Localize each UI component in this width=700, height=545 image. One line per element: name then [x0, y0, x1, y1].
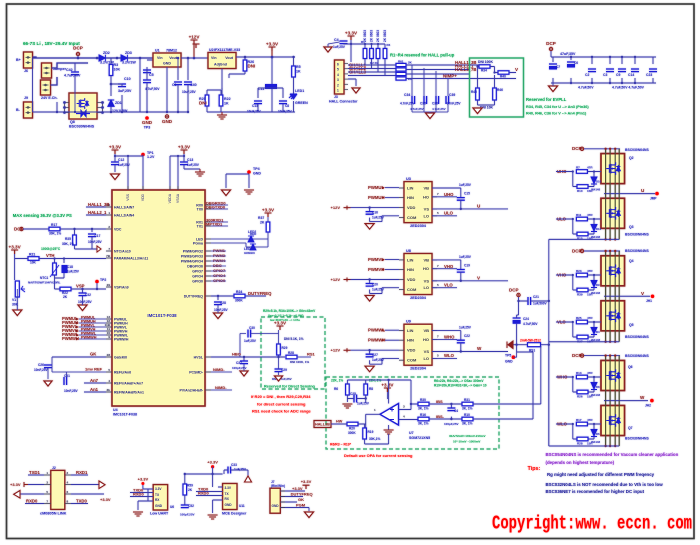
wire shunt	[511, 345, 549, 352]
ground opamp left	[342, 404, 352, 408]
wire jumper net	[52, 63, 89, 68]
ground mce	[208, 515, 218, 519]
resistor R29	[277, 344, 281, 355]
svg-text:JH1: JH1	[646, 299, 652, 303]
resistor R27 15R	[577, 335, 588, 339]
svg-text:R5: R5	[296, 65, 301, 69]
svg-text:VSP/An9: VSP/An9	[114, 285, 129, 289]
wire ibs to shunt	[499, 346, 541, 419]
connector J10	[24, 102, 33, 118]
regulator U2 IFX1117ME	[208, 53, 236, 69]
testpoint TP5	[512, 355, 516, 359]
capacitor C14	[631, 69, 639, 72]
svg-text:LO: LO	[423, 213, 429, 218]
resistor R45	[476, 88, 480, 100]
node rail junctions	[77, 57, 80, 60]
resistor R30	[418, 402, 429, 406]
svg-text:R45: R45	[471, 90, 477, 94]
capacitor C26	[44, 365, 52, 368]
svg-text:C35: C35	[420, 102, 426, 106]
svg-text:AdjGnd: AdjGnd	[214, 63, 227, 67]
svg-text:R8: R8	[369, 387, 373, 391]
wire led	[293, 57, 295, 112]
capacitor C2	[588, 69, 596, 72]
svg-text:4.7uF,50V 4.7uF,50V: 4.7uF,50V 4.7uF,50V	[612, 86, 645, 90]
resistor R46	[493, 88, 497, 100]
wire c24 down	[517, 315, 519, 345]
capacitor C5	[143, 80, 151, 83]
wire driver vdd	[351, 280, 400, 294]
green dashed box direct sensing	[261, 317, 325, 389]
svg-text:DUTYFREQ: DUTYFREQ	[291, 492, 313, 497]
wire gate	[573, 219, 601, 234]
wire mce top	[185, 467, 248, 500]
op-amp U7	[380, 404, 399, 426]
wire R25 R22	[207, 88, 295, 112]
svg-text:6: 6	[337, 63, 339, 67]
svg-text:2: 2	[337, 83, 339, 87]
wire link 3v3	[28, 484, 99, 486]
svg-text:C12: C12	[118, 158, 124, 162]
capacitor C20	[366, 284, 374, 287]
ground c37	[240, 371, 248, 376]
svg-text:C5: C5	[149, 73, 154, 77]
wire driver vs	[432, 260, 508, 281]
resistor R17 47R	[576, 422, 587, 426]
svg-text:2ED2304: 2ED2304	[410, 224, 427, 228]
wire driver vdd	[351, 280, 400, 294]
wire gate	[573, 377, 601, 392]
testpoint TP1	[141, 153, 145, 157]
capacitor C13a	[254, 101, 262, 104]
wire c31	[48, 372, 67, 379]
capacitor C27	[366, 354, 374, 357]
wire r19 down	[365, 434, 389, 444]
svg-text:R4: R4	[387, 43, 391, 47]
resistor R40	[498, 71, 509, 74]
resistor R28 15R	[577, 437, 588, 441]
power DCP link	[517, 293, 520, 296]
svg-text:2ED2304: 2ED2304	[410, 367, 427, 371]
wire mcu pwr1	[115, 154, 143, 190]
svg-text:RED: RED	[250, 232, 257, 236]
capacitor C15	[457, 198, 465, 201]
svg-text:(depends on highest temprature: (depends on highest temprature)	[546, 460, 615, 465]
arrow mce right	[245, 476, 252, 482]
capacitor C13b2	[180, 162, 188, 165]
wire 12V to U2	[194, 57, 208, 59]
svg-text:+12V: +12V	[331, 277, 341, 282]
svg-text:300K: 300K	[348, 431, 356, 435]
diode D6	[591, 430, 597, 437]
ground c32	[78, 305, 87, 311]
transistor Q5	[601, 301, 625, 331]
resistor R19	[363, 428, 367, 439]
svg-text:NIMP+: NIMP+	[443, 74, 457, 79]
svg-text:2K: 2K	[188, 488, 193, 492]
wire driver vs	[432, 331, 508, 352]
svg-text:GREEN: GREEN	[295, 101, 308, 105]
ground hall caps	[426, 113, 435, 119]
testpoint TP1	[141, 153, 145, 157]
svg-text:24V E.Ch.: 24V E.Ch.	[41, 96, 58, 100]
svg-text:C6: C6	[574, 61, 578, 65]
ground U2	[217, 115, 227, 119]
svg-text:1uF,25V: 1uF,25V	[357, 402, 370, 406]
svg-text:TX0: TX0	[197, 207, 203, 211]
svg-text:D8: D8	[596, 385, 600, 389]
svg-text:C10: C10	[124, 77, 131, 81]
svg-text:IMC101T-F038: IMC101T-F038	[113, 413, 137, 417]
wire j7	[280, 491, 309, 511]
wire ntc	[15, 254, 106, 280]
ground mcu2	[195, 172, 205, 176]
svg-text:C9: C9	[616, 73, 620, 77]
svg-text:R61: R61	[398, 60, 404, 64]
power +12V driver	[344, 206, 351, 210]
capacitor C25	[354, 395, 357, 403]
transistor Q8	[69, 93, 97, 119]
resistor R10	[462, 417, 473, 421]
svg-text:VS: VS	[424, 206, 430, 211]
wire dclink	[519, 239, 549, 344]
svg-text:Q3: Q3	[629, 225, 634, 229]
svg-text:28: 28	[107, 353, 111, 357]
capacitor C4b	[447, 408, 455, 411]
svg-text:DCP: DCP	[572, 248, 582, 253]
svg-text:GND: GND	[155, 504, 163, 508]
svg-text:R17: R17	[51, 223, 57, 227]
resistor R22b	[60, 287, 71, 291]
svg-text:1uF,500V: 1uF,500V	[533, 302, 548, 306]
wire Q8 pins	[65, 103, 103, 113]
svg-text:C3: C3	[603, 73, 607, 77]
ground c29	[275, 376, 283, 381]
svg-text:R29=5.1k, R34=100K--> Gile=43m: R29=5.1k, R34=100K--> Gile=43mV	[263, 309, 316, 313]
svg-text:4.7nF,25V: 4.7nF,25V	[432, 107, 446, 111]
ground driver	[365, 366, 374, 372]
capacitor C24	[513, 318, 521, 321]
resistor R28	[286, 355, 297, 359]
capacitor C9	[618, 69, 626, 72]
wire bus top	[551, 51, 656, 83]
svg-text:NIMD-: NIMD-	[215, 385, 227, 390]
svg-text:3uF,25V: 3uF,25V	[118, 89, 132, 93]
resistor R28 15R	[577, 437, 588, 441]
svg-text:LO: LO	[423, 356, 429, 361]
ground bus	[549, 86, 558, 92]
svg-text:VS: VS	[424, 278, 430, 283]
svg-text:Vin: Vin	[211, 56, 217, 60]
wire opamp inputs right	[399, 404, 419, 420]
connector J9	[42, 63, 52, 78]
capacitor C33 mce	[228, 467, 231, 474]
IC U4 IMC101T-F038	[112, 190, 205, 406]
power +3.3V hall	[348, 36, 355, 40]
svg-text:IN4148: IN4148	[591, 291, 600, 295]
svg-text:VDD: VDD	[407, 348, 416, 353]
svg-text:C15: C15	[464, 192, 470, 196]
diode D9	[591, 281, 597, 288]
ground c26	[44, 381, 52, 386]
wire gate	[573, 275, 601, 290]
svg-text:JMP: JMP	[650, 197, 657, 201]
wire W phase	[604, 400, 648, 402]
svg-text:47R: 47R	[587, 418, 593, 422]
svg-text:1.2V: 1.2V	[147, 155, 155, 159]
svg-text:3K, 1%: 3K, 1%	[418, 407, 429, 411]
svg-text:4: 4	[337, 73, 339, 77]
resistor R64	[396, 77, 406, 80]
svg-text:1uF,25V: 1uF,25V	[244, 339, 257, 343]
connector J3 hall	[335, 60, 345, 94]
wire driver vdd	[351, 208, 400, 222]
transistor Q2	[601, 154, 625, 184]
ground U2	[217, 115, 227, 119]
wire U phase	[604, 193, 655, 195]
svg-text:10*-10mV ~1000mV: 10*-10mV ~1000mV	[453, 440, 480, 444]
svg-text:R6=22k, R6=22k,--> OSa= 300mV: R6=22k, R6=22k,--> OSa= 300mV	[434, 379, 484, 383]
resistor R7 47R	[576, 170, 587, 174]
ground tp4b	[244, 190, 254, 194]
ground reg	[165, 115, 168, 118]
resistor R27 15R	[577, 335, 588, 339]
LED LED1 green	[289, 94, 297, 99]
power +3.3V mce	[211, 465, 214, 468]
wire boot	[432, 188, 461, 209]
svg-text:R20: R20	[349, 427, 355, 431]
svg-text:VDD: VDD	[141, 193, 145, 201]
svg-text:Copyright:www. eccn. com: Copyright:www. eccn. com	[492, 513, 692, 535]
svg-text:Reserved for EVPLL: Reserved for EVPLL	[526, 97, 567, 102]
wire rs1	[331, 424, 365, 428]
svg-text:VDC: VDC	[114, 227, 122, 231]
diode D9	[591, 281, 597, 288]
wire ntc bottom	[55, 273, 65, 289]
svg-text:RXD1: RXD1	[76, 470, 88, 475]
wire c29	[278, 357, 280, 375]
wire to shunt	[473, 404, 499, 419]
capacitor C20	[366, 284, 374, 287]
capacitor C7 electrolytic	[549, 64, 557, 67]
testpoint TP2	[95, 280, 99, 284]
svg-text:VLO: VLO	[444, 283, 453, 288]
ground C4	[324, 47, 332, 52]
svg-text:W: W	[640, 395, 645, 400]
wire R25 R22	[207, 88, 295, 112]
svg-text:C32: C32	[85, 293, 91, 297]
wire J6 to rail	[33, 57, 37, 58]
wire rs1	[331, 424, 365, 428]
resistor R25 47R	[576, 320, 587, 324]
svg-text:Q6: Q6	[628, 365, 633, 369]
resistor R59	[183, 484, 187, 495]
wire vdc	[23, 229, 106, 235]
svg-text:U11: U11	[239, 504, 245, 508]
svg-text:R21: R21	[29, 253, 35, 257]
wire boot	[432, 331, 461, 352]
capacitor C22	[457, 340, 465, 343]
svg-text:NART05WF104FA20RL: NART05WF104FA20RL	[28, 281, 61, 285]
capacitor C5	[143, 80, 151, 83]
IC U11 mce designer	[223, 484, 237, 510]
svg-text:2K 0603: 2K 0603	[376, 30, 380, 42]
wire ntc	[15, 254, 106, 280]
svg-text:GND: GND	[163, 62, 171, 66]
svg-text:R3: R3	[114, 63, 119, 67]
svg-text:HIN: HIN	[407, 195, 414, 200]
ground uart	[133, 512, 143, 516]
svg-text:ZD3: ZD3	[125, 51, 132, 55]
power +3.3V ntc	[11, 250, 18, 254]
svg-text:Q5: Q5	[629, 323, 634, 327]
svg-text:R7: R7	[576, 166, 580, 170]
svg-text:DCP: DCP	[14, 227, 24, 232]
svg-text:+3.3V: +3.3V	[381, 383, 394, 388]
resistor R23 47R	[576, 273, 587, 277]
svg-text:3.3V: 3.3V	[225, 486, 232, 490]
svg-text:C22: C22	[464, 334, 470, 338]
resistor R39 15R	[577, 288, 588, 292]
capacitor C34	[412, 96, 415, 104]
svg-text:RXD0: RXD0	[198, 491, 209, 496]
svg-text:HO: HO	[423, 337, 429, 342]
ground opamp left	[342, 404, 352, 408]
resistor R10	[462, 417, 473, 421]
svg-text:10uF,25V: 10uF,25V	[247, 110, 262, 114]
svg-text:Vout: Vout	[225, 56, 234, 60]
capacitor C8	[143, 70, 151, 73]
power +3.3V j7	[303, 485, 310, 489]
svg-text:RS1 need check for ADC range: RS1 need check for ADC range	[252, 409, 312, 414]
capacitor C13b2	[180, 162, 188, 165]
capacitor C36	[436, 96, 439, 104]
green box EVPLL	[470, 58, 524, 117]
resistor R20	[347, 422, 358, 426]
connector J6	[24, 52, 33, 68]
svg-text:C19: C19	[464, 264, 470, 268]
svg-text:B+: B+	[16, 58, 21, 62]
connector J3 hall	[335, 60, 345, 94]
svg-text:V1: V1	[12, 298, 16, 302]
wire tp4	[226, 174, 249, 188]
svg-text:DNI 100K, 1%: DNI 100K, 1%	[290, 360, 310, 364]
svg-text:C4: C4	[454, 409, 458, 413]
node rail junctions	[77, 57, 80, 60]
power DCP q6	[580, 354, 583, 357]
wire driver vs	[432, 260, 508, 281]
svg-text:C20: C20	[372, 283, 378, 287]
svg-text:C16: C16	[372, 211, 378, 215]
power +3.3V opamp	[384, 388, 391, 392]
driver IC U9	[404, 324, 432, 365]
svg-text:+3.3V: +3.3V	[109, 145, 122, 150]
wire gate	[573, 377, 601, 392]
wire to shunt	[473, 404, 499, 419]
net label RS1 box	[314, 421, 331, 428]
capacitor C35	[424, 96, 427, 104]
resistor R26	[243, 60, 247, 71]
wire evpll	[470, 65, 516, 105]
svg-text:for direct current sensing: for direct current sensing	[257, 402, 306, 407]
resistor R62	[396, 68, 406, 71]
diode ZD3	[121, 55, 127, 61]
svg-text:BSC030N04NS: BSC030N04NS	[625, 148, 649, 152]
svg-text:3: 3	[337, 78, 339, 82]
wire bottom rail left	[32, 58, 34, 112]
svg-text:C34: C34	[404, 93, 410, 97]
svg-text:47R: 47R	[587, 213, 593, 217]
resistor R2	[370, 49, 374, 59]
wire direct sense	[240, 330, 279, 357]
wire opamp top	[347, 380, 411, 404]
svg-text:10nF,25V: 10nF,25V	[78, 300, 93, 304]
resistor R1	[363, 49, 367, 59]
svg-text:DUTYFREQ: DUTYFREQ	[248, 291, 272, 296]
driver IC U3	[404, 182, 432, 223]
ground GND TP3	[145, 116, 149, 120]
wire reg input	[140, 58, 153, 112]
svg-text:BSC030N04NS: BSC030N04NS	[625, 233, 649, 237]
svg-text:C28: C28	[220, 301, 226, 305]
svg-text:R59: R59	[187, 484, 193, 488]
svg-text:J9: J9	[24, 96, 28, 100]
wire q4 columns	[605, 251, 607, 296]
wire J6 to rail	[33, 57, 37, 58]
capacitor C42	[71, 72, 79, 75]
svg-text:U7: U7	[409, 431, 414, 435]
wire vsp	[17, 281, 106, 297]
svg-text:1K: 1K	[296, 70, 301, 74]
svg-text:BSC032N04LS is NOT recomended: BSC032N04LS is NOT recomended due to Vth…	[546, 482, 664, 487]
svg-text:VTH: VTH	[46, 253, 55, 258]
resistor R3b	[376, 49, 380, 59]
ground reg	[165, 115, 168, 118]
wire V phase	[604, 295, 650, 297]
svg-text:Vin: Vin	[157, 56, 163, 60]
ground hall	[352, 88, 360, 93]
wire q6 columns	[605, 356, 607, 401]
wire W phase	[604, 400, 648, 402]
wire shunt	[511, 345, 549, 352]
svg-text:HALL1/AIN7: HALL1/AIN7	[114, 205, 134, 209]
capacitor C3	[606, 69, 614, 72]
resistor R8	[364, 384, 368, 395]
capacitor C31	[64, 377, 67, 385]
resistor R26	[243, 60, 247, 71]
wire q5 columns	[605, 296, 607, 341]
resistor R26 15R	[577, 390, 588, 394]
svg-text:Rg might need adjusted for dif: Rg might need adjusted for different PWM…	[547, 472, 655, 477]
wire mcu pwr2	[170, 154, 200, 190]
resistor R39 15R	[577, 288, 588, 292]
capacitor C4 hall	[340, 41, 348, 44]
node U output	[655, 192, 659, 196]
ground j7	[305, 512, 314, 518]
capacitor C3a	[279, 101, 287, 104]
connector J7	[270, 488, 280, 513]
wire link 3v3	[28, 484, 99, 486]
svg-text:+3.3V: +3.3V	[301, 479, 312, 484]
svg-text:1uF,25V: 1uF,25V	[118, 163, 131, 167]
resistor R3b	[376, 49, 380, 59]
capacitor C14	[631, 69, 639, 72]
svg-text:U2: U2	[209, 48, 214, 52]
wire q7 columns	[605, 401, 607, 446]
svg-text:J2: J2	[52, 466, 56, 470]
wire gk	[48, 357, 106, 376]
svg-text:C17: C17	[95, 234, 101, 238]
